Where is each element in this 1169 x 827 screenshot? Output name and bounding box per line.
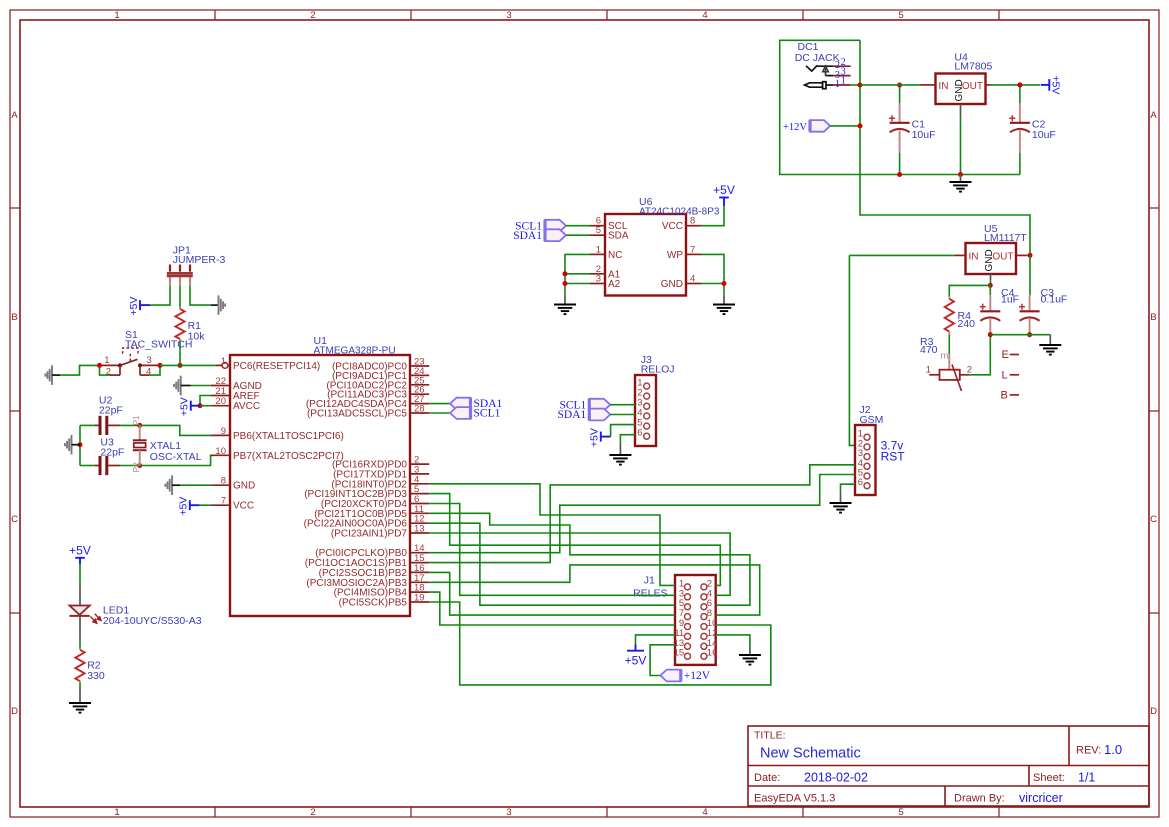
svg-text:L: L: [1002, 370, 1008, 382]
svg-text:+5V: +5V: [128, 297, 140, 316]
svg-text:VCC: VCC: [662, 221, 683, 232]
svg-text:LM1117T: LM1117T: [984, 232, 1027, 244]
svg-text:+12V: +12V: [684, 670, 711, 682]
svg-text:(PCI13ADC5SCL)PC5: (PCI13ADC5SCL)PC5: [307, 409, 407, 420]
svg-text:0.1uF: 0.1uF: [1041, 294, 1068, 306]
svg-text:E: E: [1002, 349, 1009, 361]
svg-text:Sheet:: Sheet:: [1033, 772, 1065, 784]
svg-text:+5V: +5V: [179, 397, 191, 416]
svg-text:m: m: [941, 351, 949, 362]
svg-text:A: A: [1150, 110, 1157, 121]
svg-text:1.0: 1.0: [1104, 742, 1122, 757]
svg-text:(PCI23AIN1)PD7: (PCI23AIN1)PD7: [331, 529, 408, 540]
svg-text:LM7805: LM7805: [954, 61, 992, 73]
svg-text:PC6(RESETPCI14): PC6(RESETPCI14): [233, 361, 320, 372]
svg-text:1uF: 1uF: [1001, 294, 1019, 306]
svg-text:D: D: [1150, 706, 1157, 717]
svg-text:5: 5: [898, 807, 903, 818]
svg-text:PB6(XTAL1TOSC1PCI6): PB6(XTAL1TOSC1PCI6): [233, 431, 344, 442]
svg-text:19: 19: [414, 593, 425, 604]
svg-text:2018-02-02: 2018-02-02: [804, 771, 868, 785]
svg-text:IN: IN: [969, 251, 979, 262]
svg-text:10uF: 10uF: [1032, 129, 1056, 141]
svg-text:(PCI5SCK)PB5: (PCI5SCK)PB5: [339, 598, 408, 609]
svg-text:EasyEDA V5.1.3: EasyEDA V5.1.3: [754, 793, 835, 805]
svg-text:JUMPER-3: JUMPER-3: [173, 254, 226, 266]
svg-text:GND: GND: [984, 249, 995, 271]
svg-text:Date:: Date:: [754, 772, 780, 784]
svg-text:RELOJ: RELOJ: [641, 364, 675, 376]
svg-text:VCC: VCC: [233, 501, 254, 512]
svg-text:330: 330: [87, 670, 105, 682]
svg-text:4: 4: [690, 274, 695, 285]
svg-text:3: 3: [506, 807, 511, 818]
svg-text:A: A: [11, 110, 18, 121]
svg-text:1/1: 1/1: [1078, 771, 1095, 785]
svg-text:1: 1: [221, 356, 226, 367]
svg-text:AVCC: AVCC: [233, 401, 260, 412]
svg-text:Drawn By:: Drawn By:: [954, 793, 1005, 805]
svg-text:28: 28: [414, 404, 425, 415]
svg-text:10: 10: [215, 446, 226, 457]
svg-text:16: 16: [707, 648, 718, 659]
svg-text:TITLE:: TITLE:: [754, 730, 786, 742]
svg-text:13: 13: [414, 524, 425, 535]
svg-text:1: 1: [114, 10, 119, 21]
svg-text:J1: J1: [644, 575, 655, 587]
svg-text:P1: P1: [131, 415, 141, 426]
svg-text:IN: IN: [939, 81, 949, 92]
svg-text:GND: GND: [954, 79, 965, 101]
svg-text:GND: GND: [661, 279, 683, 290]
svg-text:6: 6: [858, 477, 863, 488]
svg-text:SDA: SDA: [608, 231, 629, 242]
svg-text:22pF: 22pF: [100, 447, 124, 459]
svg-text:15: 15: [674, 648, 685, 659]
svg-text:3: 3: [506, 10, 511, 21]
svg-text:+5V: +5V: [178, 497, 190, 516]
svg-text:vircricer: vircricer: [1019, 791, 1063, 805]
svg-text:2: 2: [967, 365, 972, 376]
svg-text:PB7(XTAL2TOSC2PCI7): PB7(XTAL2TOSC2PCI7): [233, 451, 344, 462]
svg-text:2: 2: [310, 10, 315, 21]
svg-text:+12V: +12V: [783, 122, 807, 133]
svg-text:8: 8: [221, 476, 226, 487]
svg-text:AT24C1024B-8P3: AT24C1024B-8P3: [639, 207, 720, 218]
svg-text:10uF: 10uF: [912, 129, 936, 141]
svg-text:C: C: [1150, 514, 1157, 525]
svg-text:SDA1: SDA1: [558, 409, 587, 421]
svg-text:OSC-XTAL: OSC-XTAL: [150, 451, 202, 463]
svg-text:240: 240: [958, 318, 976, 330]
svg-text:1: 1: [841, 76, 846, 87]
svg-text:6: 6: [637, 428, 642, 439]
svg-text:B: B: [11, 312, 17, 323]
svg-text:B: B: [1150, 312, 1156, 323]
svg-text:TAC_SWITCH: TAC_SWITCH: [125, 339, 192, 351]
svg-text:1: 1: [596, 244, 601, 255]
svg-text:D: D: [11, 706, 18, 717]
svg-text:GND: GND: [233, 481, 255, 492]
svg-text:8: 8: [690, 216, 695, 227]
svg-text:5: 5: [596, 225, 601, 236]
svg-text:+5V: +5V: [625, 654, 647, 668]
svg-text:+5V: +5V: [713, 183, 735, 197]
svg-text:+5V: +5V: [69, 544, 91, 558]
svg-text:GSM: GSM: [860, 414, 884, 426]
svg-text:C: C: [11, 514, 18, 525]
svg-text:2: 2: [310, 807, 315, 818]
svg-text:RELES: RELES: [633, 588, 667, 600]
svg-text:7: 7: [221, 496, 226, 507]
svg-text:OUT: OUT: [962, 81, 983, 92]
svg-text:+5V: +5V: [1050, 75, 1062, 94]
svg-text:NC: NC: [608, 250, 622, 261]
svg-text:3: 3: [596, 274, 601, 285]
svg-text:WP: WP: [667, 250, 683, 261]
svg-text:1: 1: [835, 79, 840, 90]
svg-text:SCL1: SCL1: [474, 408, 501, 420]
svg-text:5: 5: [898, 10, 903, 21]
svg-text:RST: RST: [881, 450, 906, 464]
svg-text:New Schematic: New Schematic: [760, 746, 861, 762]
svg-text:3: 3: [147, 355, 152, 366]
svg-text:4: 4: [702, 807, 707, 818]
svg-text:REV:: REV:: [1076, 745, 1101, 757]
svg-text:A2: A2: [608, 279, 621, 290]
svg-text:1: 1: [114, 807, 119, 818]
svg-text:1: 1: [926, 365, 931, 376]
svg-text:7: 7: [690, 244, 695, 255]
svg-text:P2: P2: [131, 462, 141, 473]
svg-text:9: 9: [221, 426, 226, 437]
svg-text:204-10UYC/S530-A3: 204-10UYC/S530-A3: [103, 615, 202, 627]
svg-text:DC JACK: DC JACK: [795, 52, 840, 64]
svg-text:470: 470: [920, 344, 938, 356]
svg-text:OUT: OUT: [992, 251, 1013, 262]
svg-text:ATMEGA328P-PU: ATMEGA328P-PU: [314, 346, 396, 357]
svg-text:SDA1: SDA1: [513, 230, 542, 242]
svg-text:22pF: 22pF: [99, 405, 123, 417]
svg-text:B: B: [1001, 390, 1008, 402]
svg-text:1: 1: [104, 355, 109, 366]
svg-text:20: 20: [215, 396, 226, 407]
svg-text:4: 4: [702, 10, 707, 21]
svg-text:+5V: +5V: [589, 428, 601, 447]
